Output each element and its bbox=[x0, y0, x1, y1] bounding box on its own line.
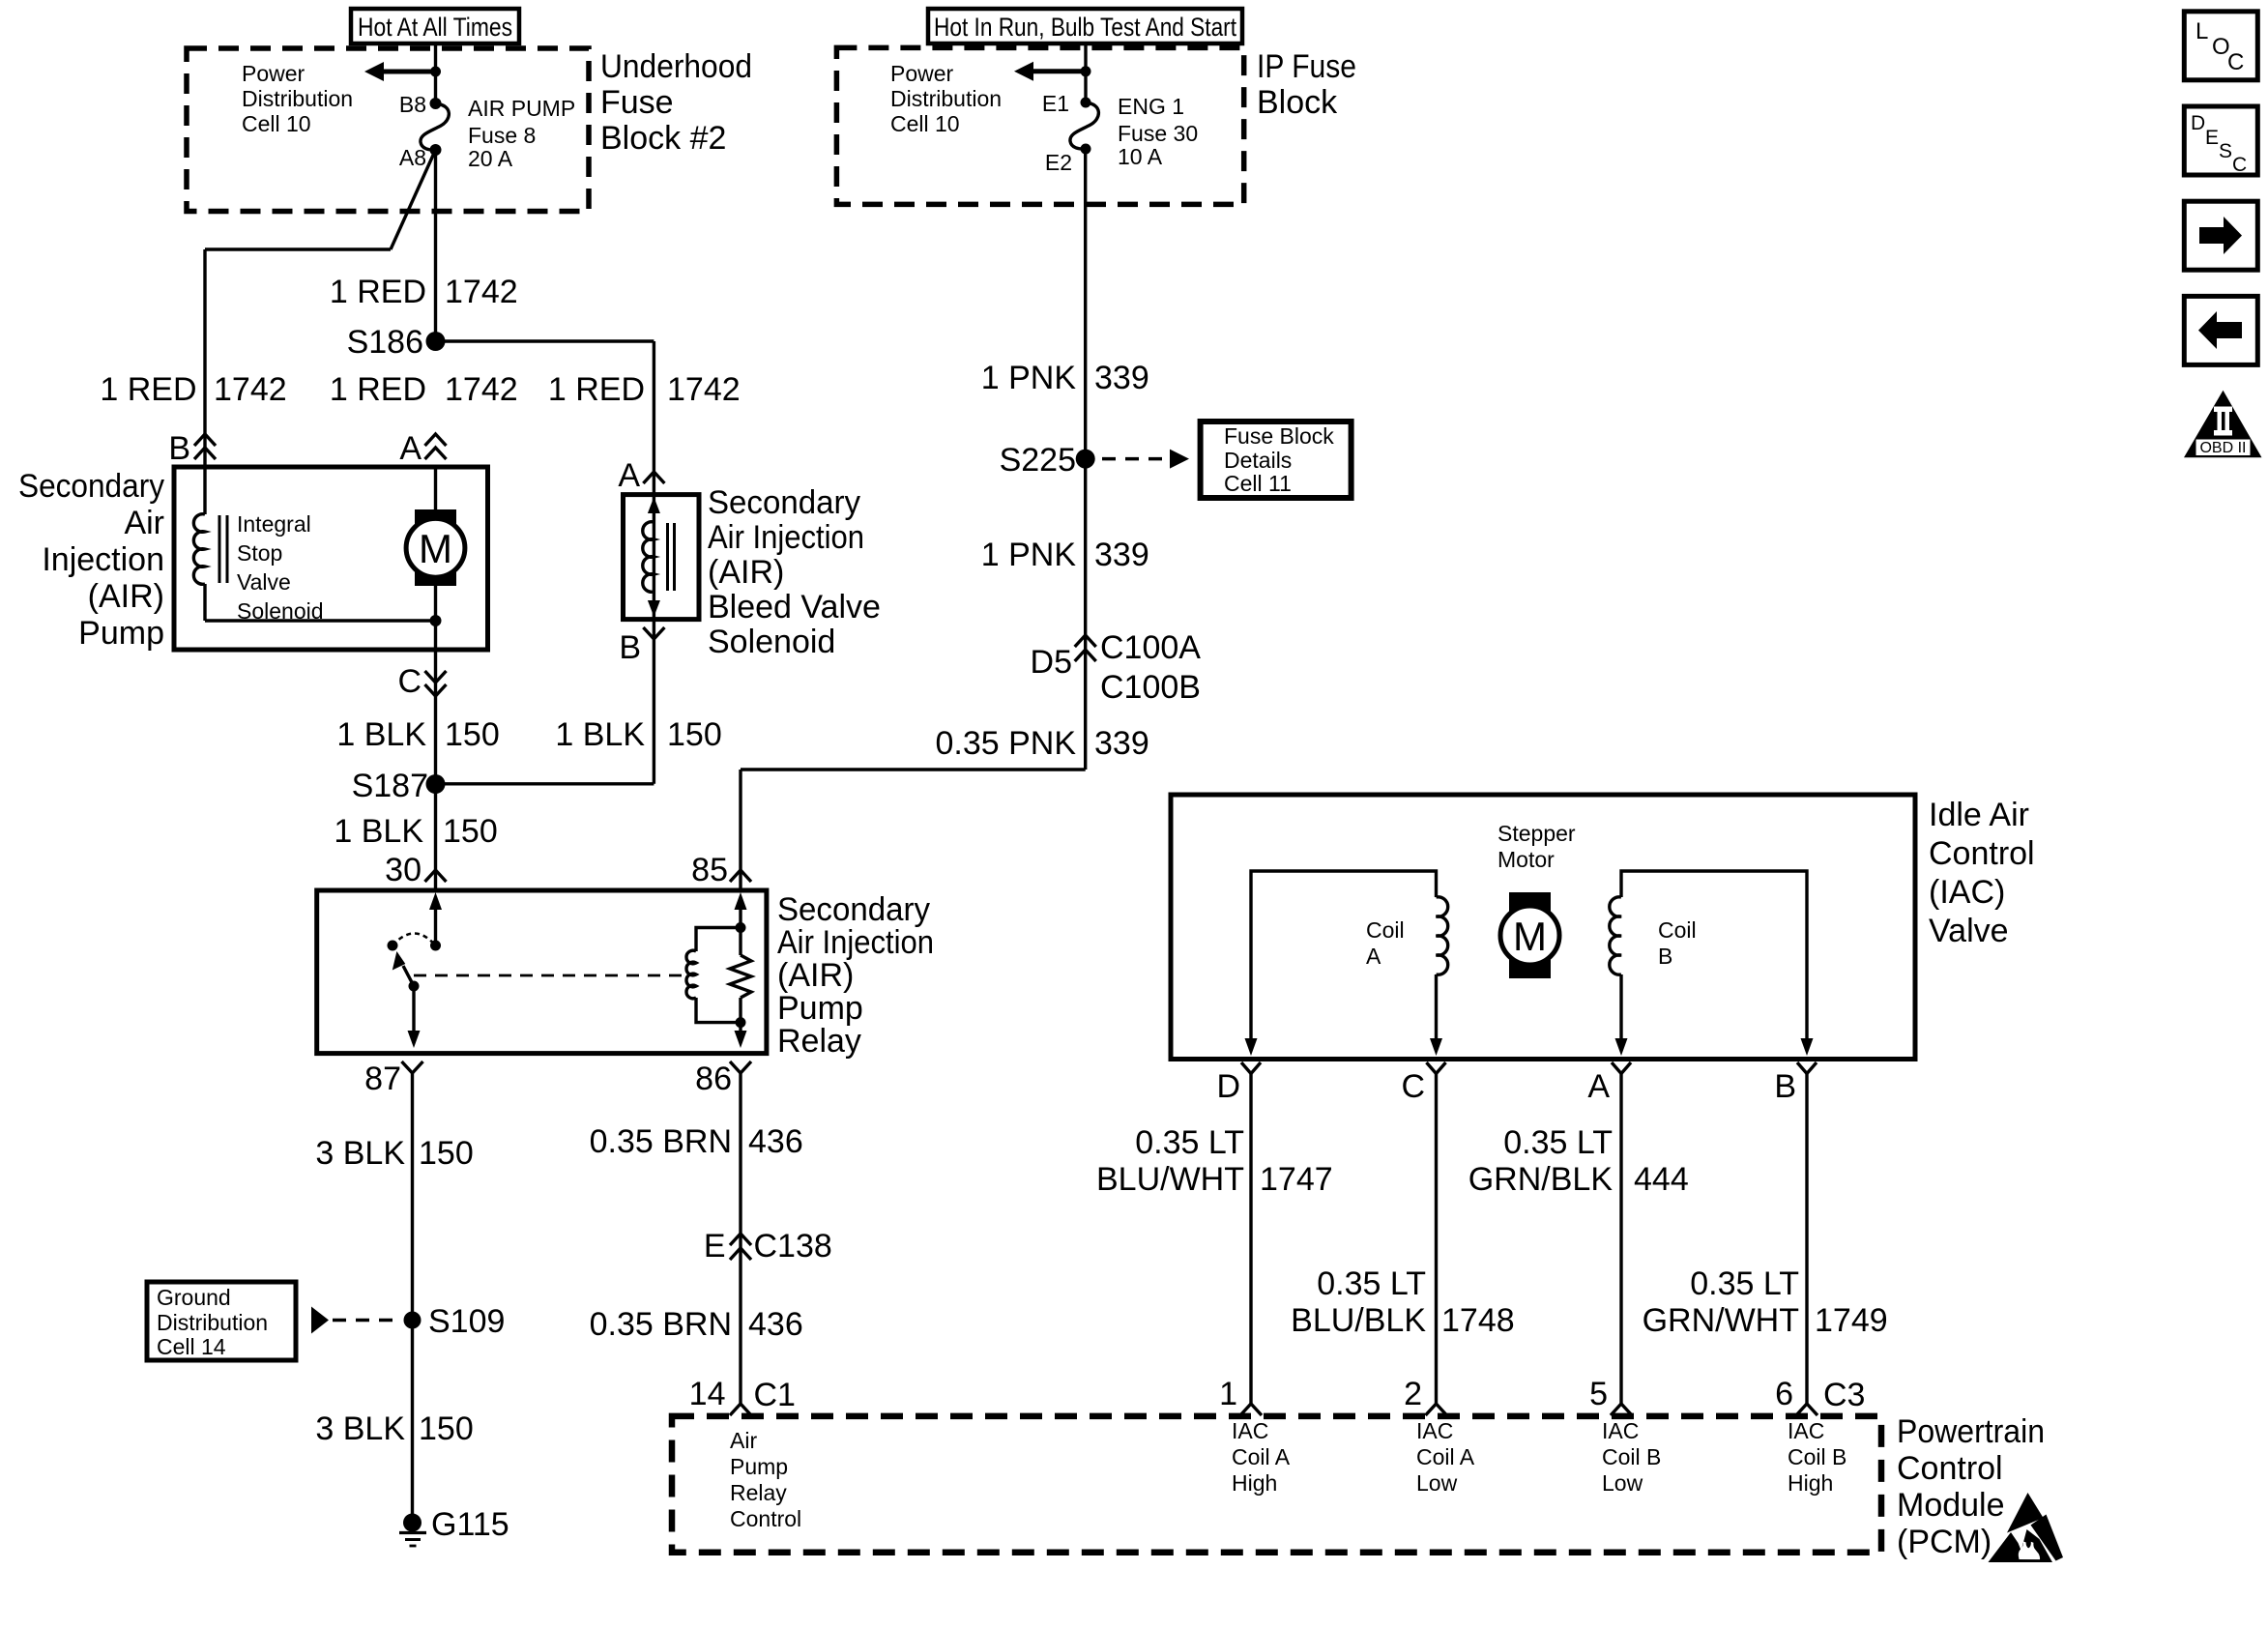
connector PCM pin 1 bbox=[1240, 1404, 1262, 1415]
svg-text:Fuse: Fuse bbox=[600, 84, 674, 121]
wire S187 to relay pin 30 bbox=[434, 784, 437, 890]
svg-text:Power: Power bbox=[242, 61, 305, 86]
svg-text:Coil B: Coil B bbox=[1602, 1444, 1661, 1469]
svg-text:Coil: Coil bbox=[1366, 917, 1405, 943]
junction dot motor/solenoid common bbox=[430, 615, 442, 626]
svg-text:Distribution: Distribution bbox=[242, 86, 353, 111]
wire IAC C to PCM 2 (LT BLU/BLK 1748) bbox=[1435, 1074, 1438, 1405]
svg-text:1 RED: 1 RED bbox=[330, 274, 426, 310]
relay contact travel dashed arc bbox=[393, 934, 436, 946]
svg-text:C138: C138 bbox=[754, 1228, 832, 1265]
svg-text:A: A bbox=[399, 430, 422, 467]
powertrain control module PCM dashed box bbox=[672, 1416, 1881, 1553]
IAC coil B winding bbox=[1621, 871, 1807, 1040]
svg-text:Solenoid: Solenoid bbox=[237, 598, 324, 624]
svg-text:1 RED: 1 RED bbox=[548, 371, 645, 408]
connector relay pin 85 bbox=[730, 870, 751, 882]
svg-text:B8: B8 bbox=[399, 92, 426, 117]
svg-text:Low: Low bbox=[1602, 1470, 1643, 1496]
svg-text:D: D bbox=[1216, 1068, 1240, 1105]
svg-text:G115: G115 bbox=[431, 1506, 509, 1543]
wire branch A8 to AIR pump pin B bbox=[391, 150, 436, 249]
svg-text:Air: Air bbox=[730, 1428, 757, 1453]
svg-text:1 RED: 1 RED bbox=[100, 371, 196, 408]
svg-text:AIR PUMP: AIR PUMP bbox=[468, 96, 575, 121]
svg-text:Details: Details bbox=[1224, 448, 1292, 473]
svg-text:BLU/BLK: BLU/BLK bbox=[1291, 1302, 1426, 1339]
svg-text:Ground: Ground bbox=[157, 1285, 231, 1310]
svg-text:Coil: Coil bbox=[1658, 917, 1697, 943]
IAC stepper motor M bbox=[1509, 892, 1551, 978]
splice S186 bbox=[426, 332, 446, 351]
svg-text:150: 150 bbox=[419, 1410, 474, 1447]
svg-text:High: High bbox=[1232, 1470, 1277, 1496]
svg-text:Block: Block bbox=[1257, 84, 1338, 121]
connector IAC pin A bbox=[1612, 1062, 1631, 1074]
svg-text:S109: S109 bbox=[428, 1303, 505, 1340]
svg-text:Secondary: Secondary bbox=[18, 468, 164, 505]
svg-text:Coil A: Coil A bbox=[1416, 1444, 1475, 1469]
svg-text:S225: S225 bbox=[1000, 442, 1076, 479]
svg-text:C3: C3 bbox=[1823, 1377, 1865, 1413]
svg-text:(PCM): (PCM) bbox=[1897, 1524, 1992, 1560]
svg-text:1742: 1742 bbox=[214, 371, 287, 408]
svg-text:C: C bbox=[2227, 49, 2244, 75]
svg-text:Fuse 8: Fuse 8 bbox=[468, 123, 536, 148]
svg-text:444: 444 bbox=[1634, 1161, 1689, 1198]
connector relay pin 87 bbox=[402, 1061, 423, 1073]
svg-text:0.35 LT: 0.35 LT bbox=[1503, 1124, 1613, 1161]
svg-text:S187: S187 bbox=[352, 768, 428, 804]
svg-text:Secondary: Secondary bbox=[777, 891, 930, 928]
svg-text:3 BLK: 3 BLK bbox=[315, 1135, 405, 1172]
connector pin A of bleed valve solenoid bbox=[643, 472, 664, 483]
underhood fuse block #2 dashed outline bbox=[187, 48, 589, 212]
relay actuation dashed link bbox=[414, 974, 690, 977]
idle air control IAC valve box bbox=[1171, 795, 1915, 1060]
svg-text:Fuse 30: Fuse 30 bbox=[1118, 121, 1198, 146]
connector D5 C100A/C100B bbox=[1075, 635, 1096, 647]
svg-text:150: 150 bbox=[445, 716, 500, 753]
svg-text:Distribution: Distribution bbox=[157, 1310, 268, 1335]
svg-text:Hot At All Times: Hot At All Times bbox=[358, 13, 512, 42]
svg-text:BLU/WHT: BLU/WHT bbox=[1096, 1161, 1244, 1198]
svg-text:150: 150 bbox=[667, 716, 722, 753]
svg-text:Cell 11: Cell 11 bbox=[1224, 471, 1292, 496]
dashed reference arrow from ground distribution bbox=[311, 1307, 329, 1334]
svg-text:1742: 1742 bbox=[667, 371, 741, 408]
svg-text:87: 87 bbox=[364, 1061, 401, 1097]
wire hot feed to fuse 8 bbox=[434, 44, 437, 103]
connector E C138 bbox=[730, 1234, 751, 1245]
svg-text:Cell 10: Cell 10 bbox=[890, 111, 960, 136]
svg-text:Fuse Block: Fuse Block bbox=[1224, 423, 1334, 449]
legend symbol OBD II bbox=[2184, 391, 2262, 457]
svg-text:A: A bbox=[1587, 1068, 1610, 1105]
svg-text:Stop: Stop bbox=[237, 540, 282, 566]
svg-text:IAC: IAC bbox=[1416, 1418, 1453, 1443]
dashed reference arrow to fuse block details bbox=[1102, 457, 1172, 461]
svg-text:OBD II: OBD II bbox=[2199, 440, 2246, 456]
fuse ENG 1 Fuse 30 element bbox=[1070, 102, 1098, 149]
junction dot relay coil top bbox=[736, 922, 746, 933]
bleed solenoid core bars bbox=[666, 523, 669, 591]
wire IAC A to PCM 5 (LT GRN/BLK 444) bbox=[1619, 1074, 1622, 1405]
svg-text:L: L bbox=[2195, 18, 2208, 44]
svg-text:Relay: Relay bbox=[730, 1480, 787, 1505]
AIR pump motor M bbox=[415, 509, 456, 586]
svg-text:1: 1 bbox=[1219, 1376, 1237, 1412]
svg-text:Idle Air: Idle Air bbox=[1929, 797, 2029, 833]
svg-text:Integral: Integral bbox=[237, 511, 311, 537]
svg-text:D5: D5 bbox=[1031, 644, 1072, 681]
svg-text:Powertrain: Powertrain bbox=[1897, 1413, 2045, 1450]
svg-text:S: S bbox=[2219, 140, 2232, 162]
connector pin B of AIR pump bbox=[194, 434, 216, 446]
svg-text:0.35 LT: 0.35 LT bbox=[1690, 1265, 1799, 1302]
svg-text:Module: Module bbox=[1897, 1487, 2005, 1524]
svg-text:E1: E1 bbox=[1042, 91, 1069, 116]
svg-text:B: B bbox=[1658, 944, 1672, 969]
svg-text:Relay: Relay bbox=[777, 1023, 861, 1060]
svg-text:20 A: 20 A bbox=[468, 146, 513, 171]
svg-text:14: 14 bbox=[689, 1376, 726, 1412]
svg-text:Coil B: Coil B bbox=[1788, 1444, 1846, 1469]
relay coil bbox=[696, 928, 741, 952]
svg-text:Bleed Valve: Bleed Valve bbox=[708, 589, 881, 625]
svg-text:(AIR): (AIR) bbox=[88, 578, 164, 615]
svg-text:1 PNK: 1 PNK bbox=[981, 537, 1077, 573]
relay movable switch arm bbox=[403, 966, 414, 986]
svg-text:0.35 BRN: 0.35 BRN bbox=[590, 1306, 732, 1343]
wire bleed valve pin B to S187 (1 BLK 150) bbox=[653, 620, 655, 784]
svg-text:Injection: Injection bbox=[42, 541, 164, 578]
svg-text:IP Fuse: IP Fuse bbox=[1257, 48, 1356, 85]
ESD sensitive device symbol bbox=[2007, 1493, 2044, 1533]
svg-text:(AIR): (AIR) bbox=[777, 957, 854, 994]
svg-text:0.35 PNK: 0.35 PNK bbox=[935, 725, 1076, 762]
svg-text:1 PNK: 1 PNK bbox=[981, 360, 1077, 396]
svg-text:1747: 1747 bbox=[1260, 1161, 1333, 1198]
svg-text:GRN/WHT: GRN/WHT bbox=[1643, 1302, 1799, 1339]
relay coil suppression resistor bbox=[739, 928, 741, 956]
connector PCM pin 6 C3 bbox=[1796, 1404, 1817, 1415]
wire IAC B to PCM 6 (LT GRN/WHT 1749) bbox=[1805, 1074, 1808, 1405]
svg-text:Secondary: Secondary bbox=[708, 484, 860, 521]
svg-text:A: A bbox=[618, 457, 640, 494]
connector IAC pin C bbox=[1427, 1062, 1446, 1074]
solenoid core bars bbox=[218, 515, 221, 583]
svg-text:Low: Low bbox=[1416, 1470, 1458, 1496]
legend box LOC bbox=[2184, 12, 2257, 80]
svg-text:1748: 1748 bbox=[1441, 1302, 1515, 1339]
svg-text:1742: 1742 bbox=[445, 371, 518, 408]
svg-text:(AIR): (AIR) bbox=[708, 554, 784, 591]
svg-text:Coil A: Coil A bbox=[1232, 1444, 1291, 1469]
svg-text:85: 85 bbox=[691, 852, 728, 888]
legend box DESC bbox=[2184, 106, 2257, 175]
svg-text:0.35 BRN: 0.35 BRN bbox=[590, 1123, 732, 1160]
svg-text:Valve: Valve bbox=[237, 569, 291, 595]
legend box arrow left bbox=[2184, 296, 2257, 364]
svg-text:1 BLK: 1 BLK bbox=[336, 716, 426, 753]
svg-text:Air: Air bbox=[124, 505, 164, 541]
integral stop valve solenoid coil bbox=[203, 467, 206, 514]
svg-text:30: 30 bbox=[385, 852, 422, 888]
svg-text:C: C bbox=[397, 663, 422, 700]
svg-text:10 A: 10 A bbox=[1118, 144, 1163, 169]
svg-text:5: 5 bbox=[1589, 1376, 1608, 1412]
svg-text:339: 339 bbox=[1094, 725, 1149, 762]
svg-text:150: 150 bbox=[419, 1135, 474, 1172]
junction dot hot feed IP bbox=[1081, 66, 1091, 76]
svg-text:M: M bbox=[1513, 914, 1547, 959]
wire relay 86 to PCM 14 C1 (0.35 BRN 436) bbox=[739, 1073, 741, 1404]
svg-text:0.35 LT: 0.35 LT bbox=[1135, 1124, 1244, 1161]
secondary air injection AIR bleed valve solenoid box bbox=[624, 495, 700, 620]
label box "Hot In Run, Bulb Test And Start" bbox=[928, 9, 1242, 44]
svg-text:A8: A8 bbox=[399, 145, 426, 170]
svg-text:A: A bbox=[1366, 944, 1381, 969]
svg-text:IAC: IAC bbox=[1602, 1418, 1639, 1443]
svg-text:Block #2: Block #2 bbox=[600, 120, 726, 157]
svg-text:Air Injection: Air Injection bbox=[708, 519, 864, 556]
svg-text:Cell 10: Cell 10 bbox=[242, 111, 311, 136]
wire IAC D to PCM 1 (LT BLU/WHT 1747) bbox=[1249, 1074, 1252, 1405]
relay fixed contact pivot bbox=[388, 941, 398, 951]
svg-text:2: 2 bbox=[1404, 1376, 1422, 1412]
junction dot relay coil bottom bbox=[736, 1017, 746, 1028]
svg-text:Control: Control bbox=[1897, 1450, 2003, 1487]
svg-text:B: B bbox=[619, 629, 641, 666]
svg-text:1742: 1742 bbox=[445, 274, 518, 310]
svg-text:Pump: Pump bbox=[78, 615, 164, 652]
connector IAC pin D bbox=[1241, 1062, 1261, 1074]
svg-text:86: 86 bbox=[695, 1061, 732, 1097]
connector PCM pin 5 bbox=[1611, 1404, 1632, 1415]
svg-text:B: B bbox=[1774, 1068, 1796, 1105]
wire E2 to S225 to relay pin 85 (PNK 339) bbox=[1084, 149, 1087, 770]
connector relay pin 30 bbox=[425, 870, 447, 882]
svg-text:1 RED: 1 RED bbox=[330, 371, 426, 408]
svg-text:436: 436 bbox=[748, 1306, 803, 1343]
svg-text:339: 339 bbox=[1094, 537, 1149, 573]
connector pin B of bleed valve solenoid bbox=[643, 627, 664, 639]
wire hot feed to fuse 30 bbox=[1084, 44, 1087, 102]
IP fuse block dashed outline bbox=[836, 47, 1243, 204]
wire S186 to bleed valve pin A bbox=[436, 339, 654, 342]
svg-text:0.35 LT: 0.35 LT bbox=[1317, 1265, 1426, 1302]
svg-text:C100A: C100A bbox=[1100, 629, 1201, 666]
arrow to power distribution cell 10 bbox=[383, 70, 436, 74]
svg-text:Air Injection: Air Injection bbox=[777, 924, 934, 961]
wire A8 to S186 (1 RED 1742) bbox=[434, 150, 437, 341]
connector IAC pin B bbox=[1797, 1062, 1817, 1074]
svg-text:1 BLK: 1 BLK bbox=[334, 813, 423, 850]
svg-text:C100B: C100B bbox=[1100, 669, 1201, 706]
connector PCM pin 2 bbox=[1426, 1404, 1447, 1415]
relay pin 85 internal lead bbox=[735, 892, 747, 910]
wire relay 87 to G115 (3 BLK 150) bbox=[411, 1073, 414, 1514]
svg-text:Pump: Pump bbox=[777, 990, 863, 1027]
svg-text:E2: E2 bbox=[1045, 150, 1072, 175]
splice S225 bbox=[1076, 450, 1095, 469]
svg-text:Stepper: Stepper bbox=[1497, 821, 1576, 846]
fuse AIR PUMP Fuse 8 element bbox=[421, 103, 449, 150]
arrow to power distribution cell 10 (IP) bbox=[1032, 69, 1086, 73]
pin A8 bbox=[430, 144, 442, 156]
svg-text:IAC: IAC bbox=[1232, 1418, 1268, 1443]
svg-text:Power: Power bbox=[890, 61, 954, 86]
svg-text:3 BLK: 3 BLK bbox=[315, 1410, 405, 1447]
svg-text:B: B bbox=[168, 430, 190, 467]
svg-text:1 BLK: 1 BLK bbox=[555, 716, 645, 753]
svg-text:Control: Control bbox=[730, 1506, 801, 1531]
svg-text:D: D bbox=[2191, 112, 2205, 134]
splice S109 bbox=[404, 1312, 422, 1329]
svg-text:High: High bbox=[1788, 1470, 1833, 1496]
connector relay pin 86 bbox=[730, 1061, 751, 1073]
svg-text:GRN/BLK: GRN/BLK bbox=[1468, 1161, 1614, 1198]
secondary air injection AIR pump relay box bbox=[317, 890, 767, 1054]
svg-text:C: C bbox=[2232, 154, 2247, 176]
svg-text:6: 6 bbox=[1775, 1376, 1793, 1412]
secondary air injection AIR pump box bbox=[174, 467, 488, 650]
svg-text:Pump: Pump bbox=[730, 1454, 788, 1479]
junction dot hot feed bbox=[430, 67, 441, 77]
svg-text:Cell 14: Cell 14 bbox=[157, 1334, 226, 1359]
svg-text:M: M bbox=[419, 526, 452, 571]
svg-text:S186: S186 bbox=[347, 324, 423, 361]
relay pin 86 internal lead bbox=[739, 1023, 741, 1032]
reference box Fuse Block Details Cell 11 bbox=[1201, 422, 1352, 498]
svg-text:E: E bbox=[2205, 127, 2219, 149]
reference box Ground Distribution Cell 14 bbox=[147, 1282, 296, 1360]
svg-text:1749: 1749 bbox=[1815, 1302, 1888, 1339]
svg-text:C: C bbox=[1401, 1068, 1425, 1105]
ground G115 bbox=[403, 1514, 422, 1532]
svg-text:E: E bbox=[704, 1228, 726, 1265]
svg-text:Solenoid: Solenoid bbox=[708, 624, 835, 660]
label box "Hot At All Times" bbox=[351, 9, 519, 44]
svg-text:Hot In Run, Bulb Test And Star: Hot In Run, Bulb Test And Start bbox=[934, 13, 1236, 42]
svg-text:Distribution: Distribution bbox=[890, 86, 1002, 111]
splice S187 bbox=[426, 774, 446, 794]
svg-text:ENG 1: ENG 1 bbox=[1118, 94, 1184, 119]
bleed valve solenoid coil bbox=[653, 495, 655, 620]
connector pin A of AIR pump bbox=[425, 434, 447, 446]
connector PCM pin 14 C1 bbox=[730, 1404, 751, 1415]
svg-text:339: 339 bbox=[1094, 360, 1149, 396]
svg-text:(IAC): (IAC) bbox=[1929, 874, 2005, 911]
pin B8 bbox=[430, 98, 442, 109]
svg-text:IAC: IAC bbox=[1788, 1418, 1824, 1443]
svg-text:Valve: Valve bbox=[1929, 913, 2009, 949]
legend box arrow right bbox=[2184, 201, 2257, 270]
pin E1 bbox=[1081, 98, 1091, 108]
svg-text:Control: Control bbox=[1929, 835, 2035, 872]
svg-text:436: 436 bbox=[748, 1123, 803, 1160]
pin E2 bbox=[1081, 144, 1091, 155]
svg-text:Motor: Motor bbox=[1497, 847, 1555, 872]
wire motor common to pin C and S187 bbox=[434, 621, 437, 784]
connector pin C of AIR pump bbox=[425, 671, 447, 683]
relay pin 30 internal contact bbox=[429, 892, 442, 910]
IAC coil A winding bbox=[1251, 871, 1437, 1040]
svg-text:C1: C1 bbox=[754, 1377, 796, 1413]
svg-text:Underhood: Underhood bbox=[600, 48, 752, 85]
svg-text:150: 150 bbox=[443, 813, 498, 850]
